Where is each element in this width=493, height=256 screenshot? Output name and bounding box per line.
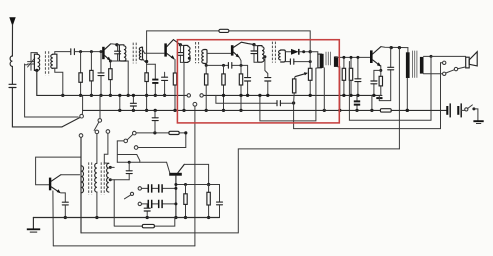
resistor R7 <box>205 65 208 112</box>
resistor R18 <box>207 185 210 220</box>
red highlight box <box>177 40 339 123</box>
bus switch contacts <box>187 94 203 97</box>
stub R14 <box>370 95 373 112</box>
capacitor C-ant <box>9 84 62 127</box>
AGC feedback resistor R5 top <box>147 29 311 52</box>
resistor R1 <box>79 52 82 97</box>
AGC line vertical with resistor R4 <box>145 31 155 112</box>
output transformer T6 <box>406 48 433 112</box>
driver stage loop wire <box>36 157 81 185</box>
wave switch S1a lever <box>62 96 83 127</box>
wiper series resistor R11 <box>293 77 296 129</box>
transistor VT5 <box>50 175 80 202</box>
T7 winding 2 <box>95 163 99 219</box>
capacitor C11 <box>265 78 271 97</box>
T4 primary <box>254 46 268 78</box>
capacitor C6 <box>162 72 168 97</box>
T1 core <box>45 51 48 75</box>
wire node A <box>110 60 128 62</box>
resistor R20 horizontal bottom <box>114 180 175 228</box>
emitter network wire <box>174 183 219 202</box>
emitter resistor R15 <box>379 66 382 96</box>
resistor R3 emitter VT1 <box>109 60 112 98</box>
IF transformer T4 feed node <box>252 43 255 46</box>
feedback loop wire <box>258 68 316 121</box>
ground right <box>473 121 483 123</box>
wire with resistor R17 top <box>136 131 187 147</box>
band switch contacts row <box>79 130 110 138</box>
rail2 dots <box>118 109 409 112</box>
transistor VT3 <box>232 42 254 65</box>
right loop wire <box>349 56 431 120</box>
transistor VT6 <box>167 162 211 219</box>
band switch contact S1b <box>94 96 101 130</box>
feedback capacitor C16 <box>376 48 393 101</box>
T7 winding 3 <box>104 163 129 192</box>
capacitor C19 <box>126 162 132 180</box>
transistor VT2 <box>145 40 181 60</box>
capacitor C20 chain <box>152 110 158 132</box>
emitter wire with series capacitor C8 <box>205 63 248 69</box>
capacitor C9 <box>245 65 251 97</box>
capacitor C5 electrolytic <box>152 64 158 97</box>
switch contact with wire <box>134 146 186 150</box>
capacitor C21 <box>217 202 223 217</box>
driver transformer T5 <box>310 52 370 112</box>
resistor R8 <box>222 65 225 112</box>
main bus (upper) <box>37 94 382 96</box>
capacitor C3 <box>98 52 104 97</box>
T3 primary <box>180 45 190 112</box>
antenna <box>9 17 15 84</box>
T1 secondary <box>51 52 71 97</box>
link bus1 to rail2 <box>118 94 121 111</box>
long center-tap wire <box>398 48 400 149</box>
T7 core <box>89 162 92 194</box>
capacitor C4 tank <box>115 45 121 61</box>
battery GB1 <box>83 103 465 117</box>
resistor R9 <box>239 65 242 112</box>
T2 secondary <box>139 47 146 61</box>
diode VD1 <box>285 49 311 55</box>
T4 core <box>272 42 275 63</box>
tone switch lever <box>125 192 134 199</box>
T4 secondary bottom wire with capacitor C12 <box>285 59 311 64</box>
volume potentiometer R10 <box>295 52 312 97</box>
resistor R2 <box>90 52 93 97</box>
earphone jack switch <box>431 61 466 129</box>
capacitor C10 tank T4 <box>251 45 257 63</box>
T2 core <box>133 43 136 64</box>
T3 secondary <box>202 50 231 66</box>
bottom bus with ground <box>27 218 220 233</box>
transistor VT1 <box>103 43 119 61</box>
capacitor C2 coupling <box>71 49 103 55</box>
IF transformer T2 primary <box>119 45 129 97</box>
electrolytic C14 below bus <box>354 95 360 112</box>
tone switch pivot <box>117 131 140 162</box>
resistor R19 <box>184 185 187 220</box>
feedback rail y233 <box>81 149 399 233</box>
T4 secondary <box>279 50 286 62</box>
power switch SA1 <box>465 105 478 121</box>
base wire VT6 <box>117 161 166 164</box>
speaker BA1 <box>431 52 477 68</box>
tone capacitor row 2 <box>138 200 177 208</box>
T7 core 2 <box>101 162 104 194</box>
bottom-most rail <box>53 245 195 247</box>
AGC ground rail <box>294 128 441 130</box>
wire from contact to audio transformer <box>96 134 98 163</box>
IF transformer T3 feed node <box>179 43 182 46</box>
resistor R16 horizontal <box>380 109 391 112</box>
emitter bypass capacitor C15 <box>371 70 381 97</box>
tuning capacitor C1 <box>25 53 38 71</box>
resistor R6 emitter VT2 <box>173 60 176 113</box>
capacitor C22 <box>144 204 150 219</box>
capacitor C17 bus link <box>130 94 136 111</box>
capacitor C7 tank T3 <box>177 45 183 63</box>
bias resistor R13 <box>349 56 352 97</box>
T3 core <box>196 42 199 63</box>
coil return wire left <box>25 64 79 117</box>
audio transformer T7 winding 1 <box>81 137 84 233</box>
bias resistor R12 <box>342 56 345 97</box>
wire from VT5 down <box>52 191 54 246</box>
wire from contact via jog <box>104 133 108 163</box>
switch contact with stem <box>193 102 197 246</box>
detector out wire to volume <box>216 95 295 105</box>
antenna coil T1 primary <box>34 54 39 95</box>
transistor VT4 <box>371 46 408 67</box>
capacitor C13 <box>355 56 361 97</box>
tone capacitor row 1 <box>138 184 177 192</box>
capacitor C18 <box>62 202 68 219</box>
